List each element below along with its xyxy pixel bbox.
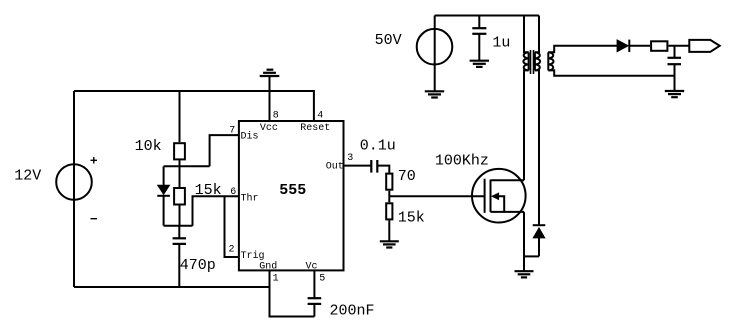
wire top rail right bbox=[435, 15, 539, 17]
voltage source V1 12V bbox=[56, 164, 92, 200]
svg-text:Reset: Reset bbox=[300, 123, 330, 134]
ground under 15k bbox=[380, 240, 399, 242]
transformer T1 primary lead bbox=[524, 16, 529, 53]
transistor Q1 source stub bbox=[491, 211, 525, 213]
transformer T1 reset winding bbox=[535, 16, 539, 53]
svg-text:Dis: Dis bbox=[241, 131, 259, 143]
transformer T1 primary winding bbox=[528, 52, 530, 70]
capacitor output bbox=[674, 46, 676, 58]
bottom rail left bbox=[74, 286, 270, 288]
wire parallel bottom jog bbox=[164, 225, 193, 227]
capacitor 470p bbox=[178, 226, 180, 239]
capacitor C 200nF bbox=[308, 297, 322, 299]
wire 15k bottom lead bbox=[179, 206, 181, 226]
wire 70 to node bbox=[388, 191, 390, 197]
svg-text:Thr: Thr bbox=[241, 192, 259, 204]
diode D1 bbox=[157, 185, 171, 196]
svg-text:Gnd: Gnd bbox=[259, 260, 277, 272]
transformer T1 secondary winding bbox=[547, 52, 549, 70]
svg-text:4: 4 bbox=[317, 110, 323, 121]
wire top rail left bbox=[74, 91, 314, 121]
svg-text:0.1u: 0.1u bbox=[360, 137, 396, 154]
svg-text:1: 1 bbox=[273, 273, 279, 284]
node minus sign V1 bbox=[91, 218, 98, 220]
capacitor 1u bbox=[478, 16, 480, 29]
svg-text:2: 2 bbox=[229, 245, 235, 256]
svg-text:15k: 15k bbox=[398, 210, 425, 227]
wire source to diode jog bbox=[524, 255, 539, 257]
svg-text:8: 8 bbox=[273, 110, 279, 121]
diode D2 reset bbox=[533, 224, 546, 226]
transistor Q1 channel bar bbox=[490, 180, 492, 212]
wire out to 70 bbox=[377, 166, 389, 173]
capacitor C 0.1u bbox=[370, 160, 372, 173]
voltage source V2 50V bbox=[434, 16, 436, 92]
svg-text:15k: 15k bbox=[195, 182, 222, 199]
wire Dis pin7 to junction bbox=[210, 135, 239, 166]
transformer T1 core bbox=[530, 50, 532, 74]
wire source down bbox=[523, 212, 525, 271]
svg-text:Vcc: Vcc bbox=[260, 123, 278, 134]
svg-text:200nF: 200nF bbox=[330, 303, 375, 320]
svg-text:100Khz: 100Khz bbox=[435, 152, 489, 169]
ground under 1u bbox=[470, 60, 489, 62]
wire 12V source branch bbox=[73, 91, 75, 287]
resistor 15k left bbox=[174, 188, 185, 205]
svg-text:Out: Out bbox=[326, 162, 344, 173]
node plus sign V1 bbox=[91, 157, 98, 219]
transistor Q1 drain stub bbox=[491, 179, 525, 181]
wire 10k branch top bbox=[179, 91, 181, 142]
resistor 15k left top lead bbox=[179, 166, 181, 187]
svg-text:12V: 12V bbox=[14, 168, 41, 185]
power symbol Vcc bbox=[260, 75, 280, 77]
svg-text:1u: 1u bbox=[492, 34, 510, 51]
transistor Q1 body arrow bbox=[491, 192, 499, 200]
svg-text:555: 555 bbox=[279, 182, 306, 199]
transistor Q1 gate bar bbox=[484, 179, 486, 213]
diode D3 output bbox=[617, 39, 630, 52]
resistor 70 bbox=[386, 174, 392, 190]
wire secondary bottom bbox=[548, 70, 674, 75]
ground output bbox=[665, 90, 684, 92]
wire pin8 stub bbox=[269, 76, 271, 121]
svg-text:7: 7 bbox=[229, 126, 235, 137]
svg-text:10k: 10k bbox=[135, 138, 162, 155]
wire box to port bbox=[668, 45, 689, 47]
op-amp U1 555 box bbox=[239, 121, 344, 270]
svg-text:5: 5 bbox=[319, 273, 325, 284]
wire Thr pin6 bbox=[193, 196, 239, 225]
ground under MOSFET bbox=[515, 270, 534, 272]
svg-text:6: 6 bbox=[230, 187, 236, 198]
svg-text:70: 70 bbox=[398, 168, 416, 185]
wire pin3 out stub bbox=[344, 165, 371, 167]
svg-text:50V: 50V bbox=[375, 32, 402, 49]
diode D1 top lead bbox=[163, 166, 165, 185]
wire pin5 vc stub bbox=[313, 270, 315, 298]
svg-text:Trig: Trig bbox=[241, 250, 265, 262]
wire node junction under 10k bbox=[164, 165, 210, 167]
resistor output box bbox=[651, 41, 667, 51]
port output arrow bbox=[689, 40, 719, 52]
wire Trig pin2 tie bbox=[225, 196, 239, 257]
resistor 15k right bbox=[386, 203, 392, 219]
svg-text:3: 3 bbox=[347, 153, 353, 164]
ground under 50V bbox=[425, 90, 444, 92]
wire 10k bottom lead bbox=[179, 160, 181, 166]
svg-text:470p: 470p bbox=[180, 257, 216, 274]
transistor Q1 MOSFET circle bbox=[472, 169, 526, 223]
svg-text:Vc: Vc bbox=[306, 261, 318, 272]
wire secondary top bbox=[548, 46, 617, 53]
wire pin1 gnd stub bbox=[270, 270, 315, 316]
resistor 10k bbox=[174, 143, 185, 159]
wire gate bbox=[389, 195, 484, 197]
